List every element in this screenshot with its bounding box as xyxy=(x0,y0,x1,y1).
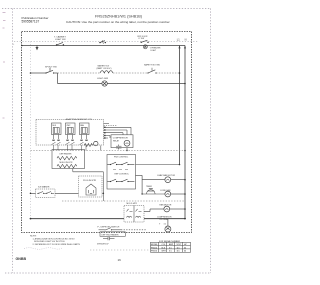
temp control tick row xyxy=(113,168,128,170)
temp control box xyxy=(107,155,136,190)
svg-text:LIGHT 40W: LIGHT 40W xyxy=(97,78,108,80)
row2 dashed wire to water valve xyxy=(58,72,101,74)
ADC to heater drop wires xyxy=(54,145,87,151)
ADC sensor circle xyxy=(94,141,98,145)
svg-text:ICE MAKER: ICE MAKER xyxy=(38,186,50,189)
schematic outer box xyxy=(22,32,192,233)
ADC relay 3 xyxy=(80,123,90,135)
svg-text:EVAP FAN MOTOR: EVAP FAN MOTOR xyxy=(158,174,176,177)
ADC terminal labels xyxy=(52,140,87,141)
ADC terminal stubs xyxy=(54,135,87,140)
svg-text:RELAY: RELAY xyxy=(113,139,120,142)
ADC relay 2 xyxy=(66,123,76,135)
bottom power rail xyxy=(31,218,186,220)
temp control switch 2 xyxy=(107,179,134,181)
cabinet dashed line xyxy=(14,41,198,43)
svg-text:60: 60 xyxy=(184,251,186,253)
heater zigzag 1 xyxy=(57,156,77,159)
svg-text:F - DEFROST SWITCH: F - DEFROST SWITCH xyxy=(98,227,120,229)
fold dashed line xyxy=(90,249,150,251)
L1 arrowhead xyxy=(178,46,180,49)
svg-text:SPOUT SW: SPOUT SW xyxy=(45,67,58,69)
svg-text:FRZ CONTROL: FRZ CONTROL xyxy=(114,157,129,159)
svg-text:GNBB: GNBB xyxy=(16,257,27,261)
condenser fan wire xyxy=(142,193,185,195)
note block xyxy=(30,235,81,246)
fan motor 3 wire xyxy=(144,209,185,212)
timer motor dome xyxy=(147,189,156,194)
legend symbol 1 xyxy=(99,228,148,230)
transformer symbols xyxy=(127,209,142,218)
compressor motor xyxy=(165,226,171,232)
svg-text:60: 60 xyxy=(184,247,186,249)
svg-text:LIGHT: LIGHT xyxy=(151,50,157,52)
svg-text:SAFETY NO SW: SAFETY NO SW xyxy=(144,63,160,66)
plug out wire xyxy=(102,192,103,194)
water valve label xyxy=(97,64,112,70)
junction dot left rail xyxy=(21,45,23,47)
inner dotted vertical bus xyxy=(30,42,32,219)
svg-text:FAN: FAN xyxy=(80,124,84,127)
svg-text:750 OHM: 750 OHM xyxy=(159,219,168,221)
svg-text:(PART OF W.V.): (PART OF W.V.) xyxy=(97,67,112,70)
plug face xyxy=(86,184,96,195)
svg-text:6.5: 6.5 xyxy=(169,251,172,253)
publication number text xyxy=(22,16,49,23)
svg-text:NOTE:: NOTE: xyxy=(30,235,37,237)
ice maker feed wire xyxy=(31,192,36,194)
wire control right branch xyxy=(136,175,143,194)
legend symbol 2 xyxy=(103,237,115,240)
lamp xyxy=(102,81,107,86)
lower dashed rail xyxy=(62,200,185,202)
svg-text:COMPRESSOR: COMPRESSOR xyxy=(113,137,129,139)
svg-text:WATER VLV: WATER VLV xyxy=(98,64,110,67)
svg-text:115: 115 xyxy=(177,247,180,249)
wire ice maker to plug xyxy=(55,192,79,194)
freezer door switch xyxy=(141,40,149,43)
wavy dotted underline bottom left xyxy=(24,248,62,250)
L1 vertical wire xyxy=(179,46,181,165)
ADC defrost thermostat zigzag xyxy=(84,144,93,147)
svg-text:LT SW: LT SW xyxy=(139,38,145,40)
svg-text:6.5: 6.5 xyxy=(169,247,172,249)
N vertical wire xyxy=(184,46,186,219)
svg-text:L: L xyxy=(13,44,14,46)
wire control to L1 xyxy=(136,164,180,166)
svg-text:CAUTION: Use the part number o: CAUTION: Use the part number on the wiri… xyxy=(66,20,170,24)
svg-text:2. DEPENDING IF IT IS US NO W: 2. DEPENDING IF IT IS US NO WIRE IN ALL … xyxy=(33,243,81,246)
mid dashed rail xyxy=(31,150,186,152)
svg-text:DEF HEATER: DEF HEATER xyxy=(60,152,72,155)
legend box row xyxy=(100,232,125,237)
door switch on cabinet line xyxy=(99,40,106,44)
N arrowhead xyxy=(184,46,186,49)
svg-text:TIMER: TIMER xyxy=(146,186,153,188)
svg-text:FRS26: FRS26 xyxy=(151,251,157,253)
ADC relay 1 xyxy=(52,123,62,135)
plug connector box xyxy=(79,176,103,197)
run capacitor symbol xyxy=(116,145,122,150)
heater zigzag 2 xyxy=(57,164,77,167)
svg-text:5995587137: 5995587137 xyxy=(22,20,40,24)
svg-text:LIGHT SW: LIGHT SW xyxy=(55,39,66,41)
freezer door light xyxy=(143,45,147,49)
svg-text:PLUG IN WTR: PLUG IN WTR xyxy=(83,180,97,182)
margin speck marks xyxy=(3,13,6,119)
svg-text:DEF TML HEATER: DEF TML HEATER xyxy=(102,233,120,236)
ADC board box xyxy=(36,120,104,146)
svg-text:NON-USED LIGHT VLV IN STYLE: NON-USED LIGHT VLV IN STYLE xyxy=(34,241,65,243)
svg-text:MULLION HTR: MULLION HTR xyxy=(60,162,73,164)
arrow connector xyxy=(36,46,38,50)
svg-text:CMP: CMP xyxy=(66,125,71,127)
table grid xyxy=(151,242,191,252)
ice maker box xyxy=(36,189,56,198)
cabinet light switch xyxy=(54,35,66,45)
ice maker transformer box xyxy=(124,206,144,223)
svg-text:REF CONTROL: REF CONTROL xyxy=(115,173,130,175)
defrost heater box xyxy=(52,150,85,169)
compressor relay box xyxy=(111,135,133,148)
svg-text:MODEL: MODEL xyxy=(151,244,158,246)
svg-text:1/4: 1/4 xyxy=(164,223,167,225)
compressor stub to rail xyxy=(126,148,128,151)
svg-text:115: 115 xyxy=(177,251,180,253)
safety switch xyxy=(144,63,160,73)
water valve coil xyxy=(100,71,113,73)
lamp wire xyxy=(58,83,186,85)
svg-text:FRS26ZNHB1/W1 (SHB1B): FRS26ZNHB1/W1 (SHB1B) xyxy=(95,15,143,19)
compressor drop xyxy=(167,219,169,226)
row2 wire xyxy=(31,68,58,73)
ADC bottom switch blades xyxy=(52,142,84,144)
svg-text:MOLD HTR: MOLD HTR xyxy=(127,203,138,205)
svg-text:16: 16 xyxy=(118,258,122,262)
ADC output bundle xyxy=(104,124,131,139)
temp control switch 1 xyxy=(107,162,134,164)
svg-text:N: N xyxy=(185,38,187,42)
dashed wire to safety switch xyxy=(113,72,148,74)
branch down to light xyxy=(57,73,59,84)
svg-text:5995587137: 5995587137 xyxy=(97,243,109,245)
fan motor 3 xyxy=(164,206,170,212)
compressor motor circle xyxy=(124,140,130,146)
svg-text:COL: COL xyxy=(162,244,166,246)
spout switch label xyxy=(45,67,58,69)
evap fan motor xyxy=(165,177,171,183)
dashed wire safety switch to L1 xyxy=(156,72,180,74)
page frame xyxy=(2,9,211,274)
condenser fan motor xyxy=(165,191,171,197)
top rail xyxy=(22,45,186,47)
wire down to plug area xyxy=(102,172,104,201)
svg-text:FRS26: FRS26 xyxy=(151,247,157,249)
evap fan motor wire xyxy=(142,179,185,181)
svg-text:VOLT: VOLT xyxy=(177,244,183,246)
svg-text:1. A MINI-GUIDE IS IN CONTROL: 1. A MINI-GUIDE IS IN CONTROLS IN 1 IS N… xyxy=(33,237,75,240)
heater drop wire xyxy=(73,169,104,172)
table cell text xyxy=(151,243,187,253)
ice maker switches xyxy=(37,192,54,194)
